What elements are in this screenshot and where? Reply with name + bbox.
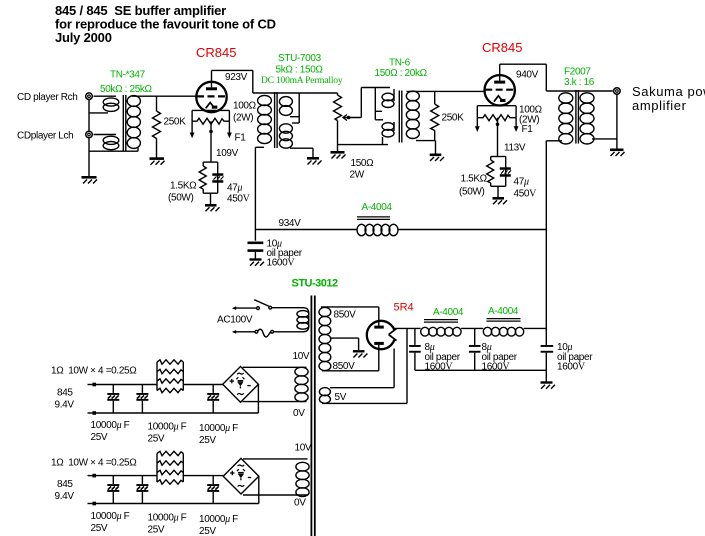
- transformer T3 secondary winding: [406, 91, 485, 141]
- labels 845 9.4V supply 1: [55, 388, 75, 411]
- TITLE-BLOCK: [55, 3, 276, 45]
- svg-text:450V: 450V: [514, 189, 538, 200]
- svg-text:150Ω: 150Ω: [351, 158, 375, 169]
- svg-text:A-4004: A-4004: [488, 306, 519, 317]
- svg-text:5kΩ : 150Ω: 5kΩ : 150Ω: [276, 65, 324, 76]
- labels caps supply2: [91, 511, 239, 536]
- svg-text:10000μ F: 10000μ F: [148, 422, 187, 433]
- svg-text:(50W): (50W): [168, 193, 193, 204]
- terminal supply2 plus: [88, 474, 97, 478]
- svg-text:10000μ F: 10000μ F: [199, 423, 238, 434]
- tube V2 plate: [494, 64, 505, 83]
- svg-text:250K: 250K: [442, 113, 465, 124]
- tube V1 grid (dashed): [197, 95, 226, 97]
- transformer T2 core: [275, 92, 278, 148]
- choke L3 A-4004: [483, 306, 523, 336]
- svg-text:AC100V: AC100V: [217, 315, 253, 326]
- svg-text:47μ: 47μ: [514, 177, 529, 188]
- switch SW1a: [232, 300, 272, 310]
- svg-text:STU-7003: STU-7003: [278, 53, 322, 64]
- wire output ground: [616, 95, 618, 149]
- wire filter rail right: [524, 327, 547, 329]
- tube V3 5R4 envelope: [367, 321, 395, 349]
- VR3 wiper arrow and tap: [343, 88, 361, 121]
- transformer T5 core: [311, 296, 314, 536]
- tube V2 CR845 envelope: [485, 75, 515, 105]
- terminal supply1 minus: [88, 411, 97, 415]
- jack J3 output: [614, 88, 621, 95]
- ground 850V center tap: [353, 351, 368, 357]
- node 934V rail: [255, 218, 546, 230]
- bridge rectifier BR1: [223, 367, 259, 403]
- ground V2 cathode: [493, 186, 508, 204]
- capacitor C7 10000uF: [107, 385, 119, 414]
- transformer T1 primary winding 1 (Rch): [89, 96, 119, 113]
- choke L2 A-4004: [421, 307, 464, 336]
- svg-text:25V: 25V: [199, 526, 216, 536]
- tube V1 filament: [206, 103, 218, 109]
- wire BR2 ac top to 10V winding: [243, 458, 308, 460]
- svg-text:450V: 450V: [227, 194, 251, 205]
- ground C3: [250, 260, 265, 266]
- wire supply1 minus rail: [96, 384, 258, 413]
- svg-text:F2007: F2007: [564, 67, 591, 78]
- terminal supply2 minus: [88, 502, 97, 506]
- labels VR2: [519, 105, 543, 136]
- ground VR3: [331, 152, 346, 158]
- wire grid rail to V1: [132, 95, 197, 97]
- ground R1: [150, 159, 165, 165]
- svg-text:25V: 25V: [91, 432, 108, 443]
- transformer T4 F2007 labels: [564, 67, 595, 89]
- tube V2 filament: [494, 96, 506, 102]
- wire 5V bottom to filter rail: [406, 328, 408, 403]
- capacitor C10 10000uF: [107, 476, 119, 504]
- svg-text:3.k : 16: 3.k : 16: [564, 77, 595, 88]
- transformer T3 core: [399, 91, 402, 143]
- transformer T1 primary winding 2 (Lch): [94, 135, 119, 150]
- resistor R4 1.5K 50W with capacitor C2 47u parallel: [487, 157, 506, 187]
- svg-text:850V: 850V: [334, 310, 357, 321]
- choke L1 A-4004: [357, 202, 398, 236]
- labels C6: [557, 342, 593, 373]
- svg-text:934V: 934V: [279, 218, 302, 229]
- svg-text:TN-6: TN-6: [389, 58, 411, 69]
- labels R2 C1: [168, 181, 251, 205]
- svg-text:CDplayer Lch: CDplayer Lch: [17, 131, 73, 142]
- svg-text:CR845: CR845: [196, 45, 236, 60]
- resistor R1 250K: [153, 96, 161, 157]
- wire BR1 ac top to 10V winding: [243, 366, 307, 368]
- labels C4: [425, 342, 461, 373]
- ground T2 secondary: [307, 148, 322, 164]
- svg-text:amplifier: amplifier: [632, 98, 687, 113]
- switch SW1b with fuse: [232, 329, 274, 337]
- bridge rectifier BR2: [223, 458, 259, 494]
- wire T2 primary bottom to B+ rail: [254, 147, 256, 229]
- svg-text:9.4V: 9.4V: [55, 491, 75, 502]
- wire BR2 ac bottom to 0V: [243, 494, 308, 496]
- svg-text:250K: 250K: [164, 117, 187, 128]
- transformer T3 TN-6 labels: [375, 58, 428, 80]
- svg-text:F1: F1: [522, 124, 534, 135]
- wire V3 output to filter rail: [394, 327, 421, 329]
- svg-text:(2W): (2W): [233, 113, 253, 124]
- svg-text:1.5KΩ: 1.5KΩ: [461, 174, 488, 185]
- resistor R2 1.5K 50W with capacitor C1 47u parallel: [199, 162, 218, 193]
- svg-text:25V: 25V: [199, 435, 216, 446]
- svg-text:113V: 113V: [504, 143, 526, 154]
- labels VR3 150ohm 2W: [350, 158, 375, 181]
- svg-text:5R4: 5R4: [394, 302, 414, 314]
- svg-text:100Ω: 100Ω: [233, 101, 257, 112]
- resistor R3 250K: [431, 91, 439, 140]
- labels caps supply1: [91, 420, 239, 446]
- tube V1 plate: [206, 70, 217, 90]
- capacitor C12 10000uF: [207, 476, 219, 504]
- svg-text:5V: 5V: [335, 392, 347, 403]
- svg-text:845: 845: [57, 388, 73, 399]
- capacitor C5 8u 1600V: [469, 328, 481, 370]
- svg-text:1Ω 10W × 4 =0.25Ω: 1Ω 10W × 4 =0.25Ω: [51, 458, 137, 469]
- capacitor C4 8u 1600V: [409, 328, 421, 370]
- transformer T5 10V winding upper: [295, 367, 308, 401]
- svg-text:850V: 850V: [333, 361, 356, 372]
- transformer T5 850V winding: [319, 307, 379, 371]
- wire BR1 ac bottom to 0V: [243, 401, 307, 403]
- transformer T5 10V winding lower: [296, 462, 309, 496]
- transformer T1 core: [123, 95, 126, 151]
- transformer T4 core: [576, 90, 579, 144]
- wire V2 plate to T4: [500, 64, 547, 91]
- ground filter: [541, 370, 556, 388]
- transformer T2 secondary upper winding: [279, 97, 299, 117]
- svg-text:845: 845: [57, 479, 73, 490]
- labels 845 9.4V supply 2: [55, 479, 75, 502]
- ground T3 secondary: [430, 141, 444, 161]
- ground output: [610, 150, 625, 156]
- resistor bank RB2 1ohm x4: [157, 451, 183, 484]
- tube V1 CR845 envelope: [196, 82, 226, 112]
- capacitor C6 10u 1600V: [541, 345, 554, 370]
- transformer T4 primary winding: [546, 91, 613, 144]
- svg-text:10V: 10V: [295, 443, 312, 454]
- transformer T5 AC primary winding: [272, 308, 309, 332]
- svg-text:STU-3012: STU-3012: [292, 278, 339, 290]
- wire VR2 wiper down: [496, 118, 500, 157]
- wire filter bottom rail: [415, 369, 546, 371]
- svg-text:10000μ F: 10000μ F: [148, 513, 187, 524]
- transformer T1 label TN-*347: [100, 70, 153, 96]
- svg-text:A-4004: A-4004: [362, 202, 393, 213]
- svg-text:47μ: 47μ: [227, 183, 242, 194]
- ground input common: [82, 177, 98, 183]
- resistor bank RB1 1ohm x4: [157, 360, 183, 393]
- svg-text:1.5KΩ: 1.5KΩ: [170, 181, 197, 192]
- jack J1 (CD Rch input): [86, 93, 93, 100]
- transformer T2 primary winding: [253, 93, 338, 147]
- svg-text:10000μ F: 10000μ F: [91, 420, 130, 431]
- wire T3 primary bottom rail: [338, 144, 389, 146]
- wire filter rail mid: [461, 327, 483, 329]
- transformer T2 secondary lower winding: [279, 123, 313, 148]
- labels 10V 0V upper: [293, 351, 310, 419]
- svg-text:CD player Rch: CD player Rch: [17, 92, 77, 103]
- tube V3 filament notch: [389, 329, 397, 341]
- F1 feed arrows V2: [475, 118, 519, 132]
- wire 850V center tap: [331, 338, 359, 350]
- transformer T4 secondary winding: [580, 93, 617, 144]
- transformer T1 secondary winding: [127, 96, 140, 152]
- ground V1 cathode: [205, 193, 220, 211]
- svg-text:10000μ F: 10000μ F: [199, 514, 238, 525]
- svg-text:150Ω : 20kΩ: 150Ω : 20kΩ: [375, 68, 428, 79]
- labels C3: [267, 239, 303, 269]
- capacitor C9 10000uF: [207, 385, 219, 414]
- wire T4 primary bottom B+ feed: [545, 141, 547, 345]
- label Sakuma power amplifier: [632, 84, 705, 113]
- jack J2 (CD Lch input): [86, 131, 93, 138]
- wire input common vertical: [88, 100, 90, 177]
- potentiometer VR1 100ohm hum balance: [192, 110, 229, 124]
- svg-text:0V: 0V: [294, 498, 306, 509]
- transformer T3 primary lower winding: [375, 120, 394, 145]
- svg-text:A-4004: A-4004: [433, 307, 464, 318]
- potentiometer VR2 100ohm hum balance: [477, 106, 516, 121]
- svg-text:Sakuma power: Sakuma power: [632, 84, 705, 99]
- svg-text:0V: 0V: [293, 408, 305, 419]
- wire supply1 plus rail: [96, 384, 223, 386]
- transformer T5 5V winding: [319, 388, 407, 404]
- svg-text:CR845: CR845: [482, 40, 522, 55]
- svg-text:2W: 2W: [350, 170, 365, 181]
- labels VR1: [233, 101, 257, 144]
- wire T2 secondary series link: [298, 93, 300, 123]
- capacitor C2 47u 450V: [500, 167, 511, 176]
- wire supply2 plus rail: [96, 475, 223, 477]
- svg-text:(50W): (50W): [459, 187, 484, 198]
- tube V3 anode plates: [374, 307, 384, 371]
- svg-text:25V: 25V: [91, 523, 108, 534]
- labels C5: [482, 342, 518, 373]
- tube V2 grid (dashed): [485, 89, 514, 91]
- svg-text:1Ω 10W × 4 =0.25Ω: 1Ω 10W × 4 =0.25Ω: [51, 366, 137, 377]
- labels 850V: [333, 310, 357, 373]
- svg-text:9.4V: 9.4V: [55, 400, 75, 411]
- svg-text:940V: 940V: [516, 70, 539, 81]
- transformer T2 STU-7003 labels: [261, 53, 343, 86]
- labels R4 C2: [459, 174, 537, 200]
- wire T3 primary link: [374, 88, 376, 120]
- svg-text:10000μ F: 10000μ F: [91, 511, 130, 522]
- svg-text:DC 100mA Permalloy: DC 100mA Permalloy: [261, 76, 343, 86]
- transformer T3 primary upper winding: [361, 88, 394, 112]
- wire 5V top to V3 filament: [393, 349, 395, 388]
- wire T1 bottom return: [89, 150, 138, 152]
- capacitor C8 10000uF: [136, 385, 148, 414]
- wire V1 plate to T2: [212, 70, 253, 93]
- F1 feed arrows V1: [190, 121, 232, 138]
- capacitor C11 10000uF: [136, 476, 148, 504]
- potentiometer VR3 150ohm: [334, 93, 342, 151]
- svg-text:923V: 923V: [225, 72, 248, 83]
- svg-text:109V: 109V: [216, 148, 239, 159]
- capacitor C1 47u 450V: [212, 173, 223, 182]
- svg-text:25V: 25V: [148, 525, 165, 536]
- capacitor C3 10u 1600V: [248, 230, 264, 259]
- svg-text:July 2000: July 2000: [55, 30, 112, 45]
- svg-text:TN-*347: TN-*347: [110, 70, 146, 81]
- svg-text:25V: 25V: [148, 434, 165, 445]
- svg-text:50kΩ : 25kΩ: 50kΩ : 25kΩ: [100, 84, 153, 95]
- svg-text:1600V: 1600V: [557, 362, 586, 373]
- wire VR1 wiper down: [209, 121, 213, 162]
- svg-text:F1: F1: [235, 133, 247, 144]
- wire supply2 minus rail: [96, 477, 259, 504]
- labels 10V 0V lower: [294, 443, 312, 509]
- svg-text:1600V: 1600V: [267, 258, 296, 269]
- svg-text:10V: 10V: [293, 351, 310, 362]
- terminal supply1 plus: [88, 383, 97, 387]
